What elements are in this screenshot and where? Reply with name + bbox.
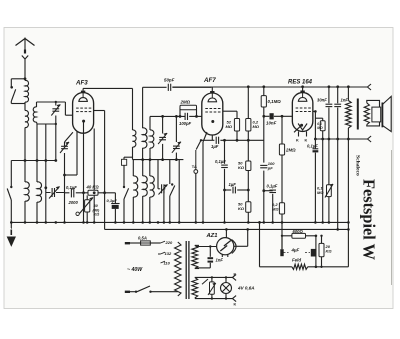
capacitor 30nF — [328, 87, 330, 104]
switch S1 antenna coil short — [11, 78, 25, 80]
wire anode side to cathode network — [313, 110, 316, 112]
svg-text:132: 132 — [165, 251, 172, 256]
capacitor 50pF — [143, 86, 167, 88]
mains switch — [130, 291, 135, 293]
wire — [178, 160, 180, 223]
capacitor 0.1uF — [224, 140, 226, 164]
trimmer C6 — [157, 160, 159, 189]
transformer core — [185, 241, 187, 299]
wire AF7 top cap — [211, 87, 213, 91]
resistor 0.2 MOhm screen — [236, 111, 238, 118]
svg-text:100pF: 100pF — [179, 121, 192, 126]
resistor 0.1 MOhm (tube right) — [315, 117, 322, 119]
wire AF3 anode — [94, 110, 105, 112]
svg-text:10nF: 10nF — [266, 121, 277, 126]
ground symbol — [10, 222, 12, 228]
coupling coil L5b — [142, 87, 144, 128]
electrolytic 4uF — [281, 236, 283, 249]
svg-text:50pF: 50pF — [164, 78, 175, 83]
wire 4uF/600 node — [315, 236, 317, 267]
svg-text:4V 0,6A: 4V 0,6A — [237, 286, 255, 291]
wire RES164 top cap anode — [302, 87, 304, 91]
tube AF3 — [73, 93, 94, 134]
resistor 50 kOhm lower — [246, 202, 251, 212]
svg-text:MΩ: MΩ — [253, 124, 260, 129]
svg-text:0,1µF: 0,1µF — [215, 159, 226, 164]
line AF7 anode/coupling y140 — [201, 139, 214, 141]
svg-text:2MΩ: 2MΩ — [180, 100, 191, 105]
bus L1 — [11, 221, 349, 223]
coil L9 — [149, 160, 151, 176]
output transformer primary — [347, 87, 349, 101]
HV secondary — [192, 245, 198, 268]
tube RES164 — [292, 93, 313, 132]
wire HV top to AZ1 — [197, 246, 217, 248]
svg-text:220: 220 — [165, 240, 173, 245]
capacitor 0.1uF — [262, 189, 265, 192]
resistor 40 kOhm — [88, 190, 98, 195]
capacitor 0.1uF block — [114, 193, 116, 204]
wire output return to bus — [337, 139, 339, 229]
variable capacitor C1 — [55, 102, 57, 106]
svg-text:0,1µF: 0,1µF — [267, 184, 278, 189]
output transformer core — [357, 99, 359, 130]
tube AF7 — [202, 93, 223, 135]
terminal arrow top — [367, 84, 371, 87]
capacitor 0.1uF series — [65, 192, 70, 194]
wire AF3 cathode — [83, 122, 85, 222]
wire AZ1 cathode to B+ — [234, 245, 248, 247]
resistor 50 kOhm — [247, 140, 249, 161]
svg-text:Schaleco: Schaleco — [355, 155, 361, 176]
svg-text:~ 40W: ~ 40W — [127, 267, 143, 273]
wire tank1 to AF3 — [64, 102, 66, 115]
svg-text:AF3: AF3 — [75, 80, 88, 87]
resistor 0.2 MOhm — [279, 203, 284, 214]
resistor 20 kOhm — [321, 236, 323, 244]
RES164 cathode detail — [294, 126, 301, 133]
svg-text:0,1MΩ: 0,1MΩ — [268, 99, 282, 104]
humdinger resistor — [211, 277, 213, 282]
svg-text:Feld: Feld — [292, 258, 301, 263]
speaker cone — [381, 103, 383, 128]
svg-text:K: K — [234, 273, 237, 277]
grid coil L6 — [149, 116, 151, 130]
speaker yoke — [367, 100, 380, 126]
field coil feed down — [347, 139, 349, 267]
wire — [24, 102, 26, 111]
svg-text:K: K — [305, 139, 308, 143]
speaker pole piece — [372, 107, 381, 122]
LV secondary — [192, 277, 198, 298]
svg-text:KΩ: KΩ — [238, 165, 245, 170]
capacitor 10nF coupling — [264, 115, 270, 117]
switch S2 — [10, 186, 12, 188]
antenna — [16, 39, 26, 46]
svg-text:Festspiel W: Festspiel W — [360, 179, 379, 260]
mains switch terminal — [125, 291, 130, 293]
svg-text:1nF: 1nF — [216, 258, 224, 263]
svg-text:2000: 2000 — [68, 200, 79, 205]
svg-text:KΩ: KΩ — [94, 213, 100, 217]
svg-text:30nF: 30nF — [317, 98, 327, 103]
wire top line B — [172, 86, 367, 88]
svg-text:pF: pF — [267, 166, 273, 171]
svg-text:AF7: AF7 — [203, 77, 216, 84]
coil L7 — [132, 160, 134, 176]
resistor 2 MOhm grid leak — [179, 108, 181, 117]
wire x263 down — [263, 116, 265, 162]
antenna coil L1b — [25, 110, 29, 127]
ground bus tank row — [11, 160, 56, 162]
resistor 0.2 MOhm — [246, 119, 251, 132]
wire AF3 top cap — [82, 88, 84, 90]
filament circuit bottom — [195, 298, 233, 300]
coil L3 — [24, 161, 26, 183]
resistor block — [122, 159, 127, 165]
wire AF7 cathode diagonal — [203, 132, 207, 142]
speaker voice coil — [364, 103, 369, 125]
AZ1 anode arc — [232, 240, 237, 254]
svg-text:0,1µF: 0,1µF — [107, 198, 118, 203]
svg-text:110: 110 — [164, 260, 171, 265]
svg-text:MΩ: MΩ — [226, 124, 233, 129]
winding tap arrow — [202, 279, 208, 284]
svg-text:KΩ: KΩ — [238, 206, 245, 211]
coil L4 — [36, 161, 38, 183]
potentiometer 30(40) kOhm — [85, 200, 90, 212]
resistor 0.1 MOhm anode load — [263, 87, 265, 96]
grid line — [150, 115, 185, 117]
svg-text:0,1µF: 0,1µF — [66, 185, 77, 190]
tuning coil L2 — [33, 107, 36, 122]
wire AF7 screen to resistors — [223, 110, 237, 112]
antenna coil L1a — [25, 80, 29, 102]
svg-text:0,1µF: 0,1µF — [307, 144, 318, 149]
antenna plug — [24, 50, 26, 54]
bus L2 — [105, 228, 349, 230]
svg-text:40 KΩ: 40 KΩ — [86, 185, 100, 190]
wire x248 vertical — [247, 87, 249, 119]
ground bus detector row — [133, 159, 184, 161]
coil L8 — [143, 176, 148, 196]
trimmer C3 — [45, 161, 47, 223]
svg-text:1µF: 1µF — [211, 144, 219, 149]
pilot lamp 4V 0.6A — [225, 277, 227, 282]
switch S4 pickup — [195, 167, 197, 170]
svg-text:0,5A: 0,5A — [138, 235, 147, 240]
mains transformer primary winding — [175, 242, 181, 296]
wire AF3 right pin — [93, 129, 95, 223]
svg-text:600Ω: 600Ω — [293, 229, 304, 234]
switch S3 — [169, 160, 171, 184]
tube AZ1 — [217, 238, 234, 255]
detector coil L5 — [132, 88, 134, 130]
potentiometer 0.1 MOhm — [328, 139, 330, 185]
svg-text:MΩ: MΩ — [317, 190, 324, 195]
svg-text:K: K — [296, 139, 299, 143]
trimmer C4 — [162, 116, 164, 133]
capacitor 0.1uF cathode — [313, 148, 319, 150]
capacitor 100pF — [260, 164, 267, 166]
wire AF3 screen — [76, 132, 78, 176]
svg-text:MΩ: MΩ — [317, 126, 323, 130]
mains transformer primary taps — [161, 241, 166, 243]
wire HV bottom — [197, 267, 210, 269]
capacitor 1nF AZ1 — [209, 247, 211, 257]
capacitor 1uF series — [215, 137, 217, 144]
wire tank1 bottom — [37, 123, 56, 125]
resistor 600 Ohm — [282, 235, 292, 237]
pins K K — [298, 132, 300, 137]
capacitor 1nF — [337, 87, 339, 104]
svg-text:AZ1: AZ1 — [206, 233, 218, 239]
svg-text:1µF: 1µF — [229, 182, 237, 187]
svg-text:KΩ: KΩ — [326, 249, 333, 254]
svg-text:2MΩ: 2MΩ — [285, 148, 296, 153]
fuse 0.5A mains terminal — [125, 242, 130, 244]
wire tank1 top — [37, 101, 66, 103]
trimmer C2 (AF3 cathode) — [65, 132, 73, 142]
resistor 2 MOhm grid — [281, 116, 283, 144]
svg-text:4µF: 4µF — [291, 248, 300, 253]
trimmer C5 — [175, 116, 177, 142]
speaker return line — [315, 138, 367, 140]
page right edge — [391, 150, 393, 285]
capacitor 1uF — [225, 189, 232, 191]
capacitor 100pF grid — [184, 113, 186, 120]
svg-text:RES 164: RES 164 — [288, 80, 313, 86]
wire antenna down — [24, 59, 26, 81]
svg-text:K: K — [234, 303, 237, 307]
filament circuit top — [195, 276, 233, 278]
svg-text:1nF: 1nF — [341, 98, 349, 103]
wire AZ1 top to bus — [225, 229, 227, 237]
